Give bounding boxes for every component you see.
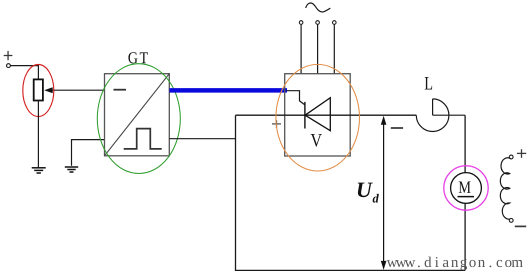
- wiper arrowhead: [44, 87, 53, 93]
- smoothing reactor L: [416, 99, 449, 132]
- ground symbol G2: [65, 167, 78, 172]
- load loop left and bottom wire: [236, 115, 466, 270]
- phase terminal a: [299, 21, 303, 25]
- blue gate drive wire: [169, 88, 287, 93]
- ground symbol G1: [32, 168, 46, 173]
- thyristor triangle: [305, 98, 330, 131]
- wiper arrow wire to GT: [52, 89, 105, 91]
- minus label at rectifier negative side: [391, 127, 403, 129]
- pulse waveform symbol inside GT: [124, 129, 162, 149]
- + label at rectifier output: [272, 120, 281, 128]
- label V: [311, 134, 322, 147]
- node + (control voltage terminal label): [4, 51, 13, 60]
- AC source sine symbol: [306, 3, 331, 12]
- wire potentiometer bottom to ground: [37, 100, 39, 167]
- rectifier box V: [285, 74, 351, 156]
- phase wire c: [333, 24, 335, 74]
- potentiometer RP: [34, 79, 43, 100]
- field winding - label: [515, 225, 526, 227]
- field winding terminal +: [509, 155, 513, 159]
- load loop right wire: [464, 115, 466, 270]
- watermark www.diangon.com: [387, 257, 523, 271]
- gate lead into thyristor: [287, 91, 305, 105]
- red ellipse highlight around potentiometer: [23, 65, 54, 117]
- wire reactor to motor branch: [433, 114, 466, 116]
- Ud measurement arrow: [383, 119, 385, 267]
- M underline: [458, 196, 475, 198]
- trigger unit box GT: [105, 74, 170, 156]
- motor M circle: [451, 173, 482, 204]
- green ellipse highlight around GT: [97, 64, 180, 174]
- label M: [459, 181, 471, 192]
- phase terminal c: [333, 21, 337, 25]
- phase wire b: [317, 24, 319, 74]
- label Ud: [358, 183, 373, 198]
- wire GT left lower to ground G2: [72, 140, 105, 166]
- label GT: [128, 52, 147, 63]
- phase wire a: [300, 24, 302, 74]
- main output wire through thyristor level: [236, 114, 417, 116]
- field winding coil: [500, 158, 510, 219]
- label L: [425, 77, 432, 89]
- wire terminal to potentiometer top: [10, 66, 38, 80]
- GT box diagonal: [105, 74, 170, 156]
- magenta circle highlight around motor: [444, 166, 488, 210]
- thyristor cathode bar: [304, 102, 306, 129]
- field winding terminal -: [509, 219, 513, 223]
- phase terminal b: [316, 21, 320, 25]
- terminal circle: [7, 64, 11, 68]
- orange ellipse highlight around rectifier: [276, 64, 360, 171]
- GT lower output wire: [169, 138, 235, 140]
- minus sign inside GT: [114, 89, 127, 91]
- field winding + label: [517, 149, 526, 158]
